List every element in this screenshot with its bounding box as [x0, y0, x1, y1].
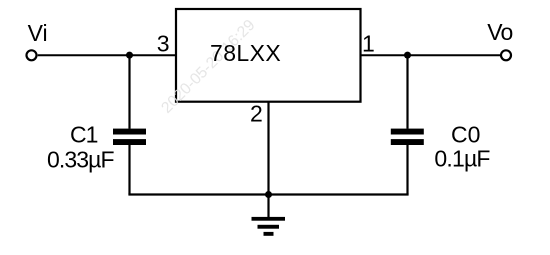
wire pin 2 to ground: [267, 102, 269, 218]
terminal Vo: [501, 50, 511, 60]
terminal Vi: [27, 50, 37, 60]
wire C0 lower lead: [406, 145, 408, 195]
svg-text:0.33µF: 0.33µF: [47, 146, 115, 172]
node input junction: [126, 52, 133, 59]
svg-text:Vi: Vi: [28, 20, 48, 46]
wire C1 upper lead: [128, 55, 130, 129]
wire bottom rail: [128, 193, 408, 195]
ground: [252, 217, 286, 236]
svg-text:C1: C1: [70, 122, 98, 148]
svg-text:1: 1: [362, 30, 375, 56]
svg-text:3: 3: [157, 30, 170, 56]
capacitor C1: [113, 129, 146, 145]
svg-text:C0: C0: [451, 122, 480, 148]
node output junction: [404, 52, 411, 59]
wire input to pin 3: [38, 54, 176, 56]
node ground junction: [265, 191, 272, 198]
svg-text:0.1µF: 0.1µF: [434, 146, 490, 172]
svg-text:78LXX: 78LXX: [210, 40, 281, 66]
wire C0 upper lead: [406, 55, 408, 129]
wire pin 1 to output: [361, 54, 501, 56]
capacitor C0: [391, 129, 424, 145]
wire C1 lower lead: [128, 145, 130, 195]
svg-text:Vo: Vo: [487, 19, 512, 45]
svg-text:2: 2: [250, 100, 263, 126]
regulator U1 box: [176, 9, 361, 102]
